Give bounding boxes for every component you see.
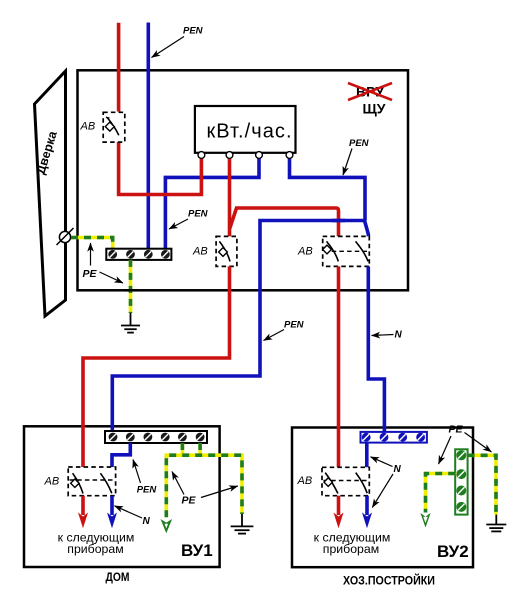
wire PE bus to ground (yellow-green) [129, 260, 133, 313]
svg-text:N: N [395, 330, 403, 341]
svg-text:PEN: PEN [349, 138, 370, 149]
breaker AB3 left diamond [323, 245, 332, 254]
VU2 PE strip terminal 1 [456, 450, 466, 460]
VU2 N strip terminal 2 [380, 433, 389, 442]
wire into AB3 right pole (blue) [365, 221, 369, 237]
enclosure edge over PE wire [124, 289, 138, 292]
meter terminal 2 [226, 152, 233, 159]
svg-text:PEN: PEN [137, 484, 158, 495]
breaker AB1 contact diamond [105, 122, 114, 131]
wire L phase input (red, top) [117, 23, 121, 112]
bus terminal 3 [144, 250, 153, 259]
svg-text:ВУ1: ВУ1 [181, 541, 213, 560]
svg-text:PE: PE [83, 268, 98, 280]
wire N bus over phase crossing [332, 219, 345, 223]
leader PE down-right [100, 272, 124, 283]
VU1 breaker left diamond [71, 479, 79, 487]
bus terminal 4 [161, 250, 170, 259]
VU1 strip terminal 3 [144, 433, 153, 442]
wire AB2 out down to VU1 (red) [83, 266, 230, 467]
meter terminal 1 [198, 152, 205, 159]
breaker AB3 linkage dashed [324, 250, 368, 252]
door earth screw [59, 231, 70, 242]
leader PE VU2 right [465, 433, 492, 453]
ground symbol main [121, 313, 140, 333]
svg-text:кВт./час.: кВт./час. [207, 121, 292, 143]
VU2 breaker left diamond [324, 478, 332, 486]
wire PE door to bus (yellow-green) [71, 238, 113, 249]
wire VU1 N out (blue) [110, 496, 114, 515]
VU2 PE terminal strip (green, vertical) [455, 449, 467, 514]
VU1 strip terminal 5 [178, 433, 187, 442]
ground symbol VU2 [486, 515, 506, 532]
VU2 breaker linkage dashed [324, 480, 369, 482]
svg-text:приборам: приборам [67, 542, 123, 556]
VU2 N terminal strip (blue) [361, 432, 427, 443]
wire branch t2 to AB3 (red) [230, 208, 339, 236]
VU2 breaker right blade [356, 473, 368, 494]
svg-text:ВУ2: ВУ2 [437, 542, 469, 561]
leader PEN top [152, 37, 185, 58]
VU1 strip terminal 1 [109, 433, 118, 442]
svg-text:АВ: АВ [297, 246, 313, 258]
svg-text:ЩУ: ЩУ [363, 101, 386, 117]
svg-text:PEN: PEN [284, 320, 305, 331]
wire AB1 output to meter t1 (red) [119, 142, 202, 195]
red cross line 2 [348, 83, 392, 100]
svg-text:PEN: PEN [183, 26, 204, 37]
VU2 PE strip terminal 4 [456, 502, 466, 512]
bus terminal 1 [108, 250, 117, 259]
arrow VU1 phase (red) [78, 513, 88, 529]
wire VU1 PE bus (yellow-green) [166, 443, 242, 517]
breaker AB3 left blade [327, 241, 339, 261]
svg-text:АВ: АВ [44, 476, 60, 488]
breaker AB1 dashed box [103, 112, 125, 142]
meter terminal 3 [256, 152, 263, 159]
VU1 breaker linkage dashed [70, 479, 115, 481]
VU1 strip terminal 4 [161, 433, 170, 442]
meter box [195, 106, 296, 153]
VU1 breaker left blade [73, 473, 83, 493]
svg-text:PE: PE [182, 495, 197, 507]
wire meter t3 to PEN bus (blue) [165, 158, 259, 249]
svg-text:N: N [394, 464, 402, 475]
door earth screw slash [57, 228, 74, 245]
leader PEN near bus [169, 219, 188, 229]
arrow VU2 phase (red) [334, 513, 344, 529]
VU1 jumper strip to breaker (blue) [112, 443, 130, 467]
VU1 strip terminal 6 [196, 433, 205, 442]
wire meter t4 to split (blue) [290, 158, 366, 221]
breaker AB1 blade [106, 117, 119, 135]
PEN splitter bus strip [106, 249, 171, 260]
VU2 breaker dashed box (2-pole) [322, 467, 369, 495]
enclosure box ЩУ [78, 70, 409, 290]
meter terminal 4 [286, 152, 293, 159]
VU2 N strip terminal 3 [398, 433, 407, 442]
wire VU2 PE strip to ground (yellow-green) [468, 455, 496, 514]
VU1 terminal strip [105, 431, 207, 443]
leader PE VU1 right [201, 486, 238, 498]
wire VU2 phase out (red) [337, 496, 341, 515]
svg-text:приборам: приборам [323, 542, 379, 556]
svg-text:АВ: АВ [80, 121, 96, 133]
arrow VU1 N (blue) [107, 513, 117, 529]
ground symbol VU1 [231, 514, 254, 534]
wire PEN input (blue, top) [147, 23, 151, 249]
VU2 breaker left blade [325, 473, 338, 494]
bus terminal 2 [126, 250, 135, 259]
leader N VU1 [115, 506, 143, 518]
VU1 breaker right blade [100, 473, 111, 493]
wire N bus horizontal to VU1 (blue) [112, 221, 364, 432]
wire AB3 left out down to VU2 (red) [337, 266, 341, 467]
VU1 breaker dashed box (2-pole) [68, 467, 115, 496]
wire VU1 phase out (red) [81, 496, 85, 515]
wire meter t2 down to AB2 (red) [228, 158, 232, 236]
leader PE VU1 left [172, 472, 184, 495]
breaker AB2 blade [219, 241, 230, 261]
door (Дверка) [35, 71, 66, 316]
breaker AB3 right blade [356, 241, 369, 261]
svg-text:АВ: АВ [297, 475, 313, 487]
leader PEN right [343, 149, 352, 176]
breaker AB3 dashed box (2-pole) [323, 236, 370, 266]
arrow VU1 PE (green, hollow) [161, 519, 173, 533]
leader PE VU2 left [439, 436, 452, 464]
svg-text:PEN: PEN [188, 209, 209, 220]
wire VU2 PE strip to arrow (yellow-green) [426, 474, 456, 513]
breaker AB2 dashed box [216, 236, 237, 266]
svg-text:PE: PE [449, 424, 464, 436]
leader N to VU2 [372, 335, 394, 336]
VU2 N strip terminal 4 [416, 433, 425, 442]
svg-text:АВ: АВ [192, 246, 208, 258]
leader PEN VU1 [133, 460, 141, 484]
VU1 strip terminal 2 [126, 433, 135, 442]
VU2 PE strip terminal 3 [456, 486, 466, 496]
svg-text:N: N [143, 516, 151, 527]
svg-text:ДОМ: ДОМ [106, 570, 130, 584]
leader PEN to VU1 [264, 330, 285, 341]
leader N VU2 long [372, 474, 393, 508]
red cross line 1 [348, 83, 392, 100]
wire AB3 right out down to VU2 strip (blue) [368, 266, 384, 432]
arrow VU2 PE (green) [420, 513, 430, 528]
wire VU2 N out (blue) [365, 496, 369, 515]
leader N VU2 short [371, 457, 393, 467]
wire VU2 N strip to breaker (blue) [365, 443, 369, 468]
leader PE up [90, 243, 92, 266]
svg-text:ХОЗ.ПОСТРОЙКИ: ХОЗ.ПОСТРОЙКИ [343, 575, 435, 588]
VU2 N strip terminal 1 [362, 433, 371, 442]
VU2 PE strip terminal 2 [456, 469, 466, 479]
arrow VU2 N (blue) [362, 513, 372, 529]
breaker AB2 contact diamond [219, 248, 228, 257]
